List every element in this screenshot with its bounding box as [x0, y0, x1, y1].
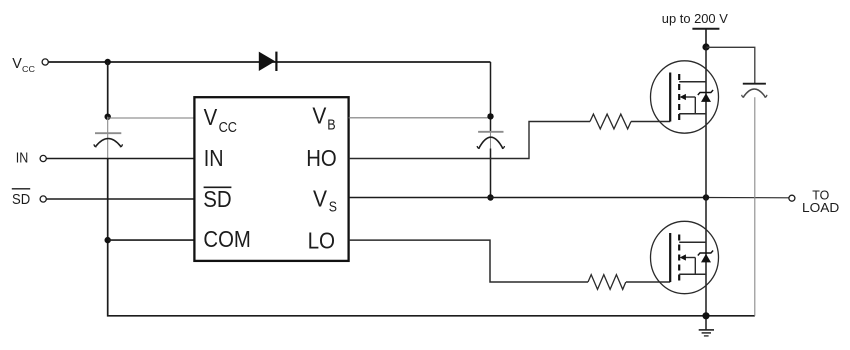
wire VB pin to bootstrap node — [349, 117, 491, 119]
wire R1 to Q1 gate — [631, 121, 670, 123]
svg-text:V: V — [204, 104, 218, 130]
diode D1 (bootstrap diode) — [259, 52, 277, 71]
svg-text:CC: CC — [22, 64, 35, 74]
node VCC junction — [105, 59, 111, 65]
wire HV drain line through Q1 to VS — [705, 47, 707, 198]
node HV bus label: up to 200 V — [662, 11, 728, 47]
terminal IN — [16, 150, 47, 167]
svg-text:LO: LO — [308, 227, 336, 253]
wire R2 to Q2 gate — [626, 281, 670, 283]
wire VCC top rail — [48, 61, 490, 63]
capacitor C1 (VCC bypass) — [94, 133, 123, 147]
svg-text:IN: IN — [16, 150, 28, 167]
svg-text:S: S — [329, 200, 337, 216]
svg-text:COM: COM — [203, 226, 251, 252]
wire capacitor C2 lead — [490, 131, 492, 198]
wire IN to IC — [46, 158, 195, 160]
svg-text:V: V — [312, 103, 327, 129]
ground — [699, 330, 714, 336]
wire HO pin to gate resistor — [349, 122, 590, 159]
wire HV to bus capacitor — [706, 47, 755, 83]
resistor R1 (high-side gate) — [590, 114, 631, 129]
svg-text:V: V — [12, 55, 22, 72]
svg-text:SD: SD — [203, 186, 231, 212]
node COM junction — [105, 237, 111, 243]
transistor Q1 (high-side MOSFET) — [651, 61, 719, 133]
capacitor C2 (bootstrap) — [477, 132, 504, 149]
node bypass cap junction — [105, 114, 111, 120]
svg-text:HO: HO — [306, 145, 337, 171]
wire VCC down to bypass cap — [107, 62, 109, 117]
capacitor C3 (bus) — [742, 84, 767, 98]
node VS output junction — [703, 194, 709, 200]
wire SD to IC — [46, 198, 195, 200]
node VS bootstrap return — [487, 194, 493, 200]
transistor Q2 (low-side MOSFET) — [651, 221, 719, 293]
terminal TO LOAD — [789, 187, 839, 215]
wire capacitor C1 lead (through cap) — [107, 117, 109, 159]
svg-text:LOAD: LOAD — [802, 200, 839, 215]
terminal VCC — [12, 55, 48, 74]
terminal SD (active low) — [12, 189, 47, 208]
node HV junction — [702, 43, 709, 50]
wire COM junction to IC COM pin — [108, 239, 195, 241]
svg-text:B: B — [327, 118, 335, 134]
node ground junction — [702, 312, 709, 319]
wire VS through Q2 to ground rail — [705, 198, 707, 330]
wire LO pin to gate resistor — [349, 240, 588, 282]
wire C2 bottom to VS rail — [490, 149, 492, 198]
svg-text:IN: IN — [204, 145, 224, 171]
node bootstrap junction VB — [487, 113, 493, 119]
op IC U1 gate driver box — [194, 97, 348, 261]
wire C3 bottom lead to return rail — [754, 97, 756, 315]
svg-text:CC: CC — [219, 120, 237, 136]
wire junction to IC VCC pin — [108, 117, 195, 119]
wire left rail down to bottom return rail — [108, 159, 755, 316]
svg-text:V: V — [313, 186, 328, 212]
wire VS rail to load — [349, 197, 706, 199]
svg-text:SD: SD — [12, 191, 30, 208]
resistor R2 (low-side gate) — [588, 275, 626, 290]
wire bootstrap vertical from diode — [490, 62, 492, 131]
svg-text:up to 200 V: up to 200 V — [662, 11, 728, 26]
